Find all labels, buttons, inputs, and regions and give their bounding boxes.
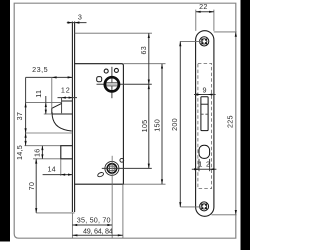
latch top ext left	[26, 102, 62, 104]
bottom screw hole	[200, 202, 209, 211]
follower crosshair vertical	[111, 67, 113, 98]
svg-text:12: 12	[61, 85, 71, 94]
extension line case right edge down	[122, 184, 124, 238]
follower ring	[105, 77, 119, 91]
dimension 3 line	[67, 22, 87, 24]
cylinder crosshair horizontal / ext to 105 dim	[102, 167, 152, 169]
oblong screw hole E	[97, 172, 104, 178]
latch swing arc	[52, 112, 72, 131]
latch cutout	[201, 97, 208, 131]
svg-text:225: 225	[225, 115, 234, 128]
svg-text:49, 64, 84: 49, 64, 84	[83, 226, 113, 235]
svg-text:3: 3	[78, 12, 82, 21]
dimension 3 arrows	[68, 21, 80, 23]
follower crosshair horizontal / ext to 63-105 dim	[97, 83, 152, 85]
svg-text:11: 11	[34, 90, 43, 98]
svg-text:22: 22	[199, 2, 208, 11]
dimension 22 line	[196, 11, 214, 13]
dimension 37 line	[25, 77, 27, 133]
right black border bar	[241, 0, 251, 250]
dimension 12 plate line	[192, 168, 217, 170]
cylinder crosshair vertical / ext to bottom dims	[111, 156, 113, 238]
drawing frame	[14, 3, 236, 238]
dimension 16 line	[41, 146, 43, 159]
dimension 63 line	[148, 33, 150, 84]
screw hole circle A	[104, 69, 108, 73]
dashed case rectangle	[198, 63, 212, 188]
svg-text:70: 70	[27, 182, 36, 191]
dimension 200 line	[179, 41, 181, 207]
extension line case bottom right	[123, 183, 165, 185]
follower square hole bar	[106, 83, 119, 86]
faceplate inner line	[74, 22, 76, 213]
dimension 225 arrows on frame line	[235, 32, 237, 215]
dimension 22 ext lines	[195, 10, 197, 31]
dimension 12 plate ext lines	[198, 159, 200, 171]
svg-text:63: 63	[139, 46, 148, 55]
cylinder hole outer circle	[105, 161, 119, 175]
ext line y212.9	[36, 212, 74, 214]
top screw hole	[200, 37, 209, 46]
deadbolt	[61, 146, 73, 159]
case outline	[75, 64, 124, 185]
svg-text:1 2: 1 2	[198, 159, 210, 168]
dimension 12 line (latch)	[58, 97, 78, 99]
extension line faceplate top	[75, 32, 152, 34]
dimension 23,5 line	[26, 76, 73, 78]
extension line L1 y133	[26, 132, 73, 134]
left black border bar	[0, 0, 10, 242]
screw hole circle B	[114, 68, 118, 72]
dimension 105 line	[148, 84, 150, 168]
svg-text:105: 105	[140, 120, 149, 133]
dimension 14 line	[43, 174, 73, 176]
svg-text:37: 37	[15, 112, 24, 121]
latch dashed mid line	[201, 113, 208, 115]
svg-text:150: 150	[153, 119, 162, 132]
deadbolt front ext down	[60, 159, 62, 176]
dimension 70 line	[35, 159, 37, 213]
extension line L3 y158.5	[33, 158, 61, 160]
dimension 11 line	[45, 96, 47, 114]
small circle notch at case edge	[120, 158, 124, 162]
latch bevel line	[201, 103, 208, 105]
dimension 14,5 line	[25, 133, 27, 146]
extension line L2 y146.2	[25, 145, 61, 147]
latch stem line	[61, 98, 63, 114]
cylinder spindle ring	[107, 164, 116, 173]
dimension 49,64,84 line	[72, 234, 122, 236]
latch bottom ext left	[44, 113, 52, 115]
svg-text:16: 16	[32, 149, 41, 158]
plate outline	[196, 31, 214, 217]
dimension 35,50,70 line	[72, 224, 112, 226]
dimension 225 ext lines	[214, 31, 237, 33]
svg-text:35, 50, 70: 35, 50, 70	[77, 216, 111, 225]
dimension 9	[194, 94, 216, 96]
svg-text:23,5: 23,5	[32, 65, 48, 74]
deadbolt cutout	[199, 145, 210, 158]
ext line faceplate down to bottom dims	[71, 213, 73, 238]
extension line case top right	[123, 63, 165, 65]
small square hole C	[97, 77, 102, 82]
latch bolt	[52, 101, 73, 114]
faceplate outer line	[71, 22, 73, 213]
dimension 150 line	[161, 64, 163, 185]
dimension 200 ext lines	[180, 40, 203, 42]
svg-text:14: 14	[47, 165, 56, 174]
ext line latch tip x51.8	[51, 77, 53, 108]
svg-text:200: 200	[170, 118, 179, 131]
svg-text:9: 9	[202, 86, 206, 95]
cylinder square hole	[110, 166, 115, 171]
svg-text:14,5: 14,5	[15, 145, 24, 160]
